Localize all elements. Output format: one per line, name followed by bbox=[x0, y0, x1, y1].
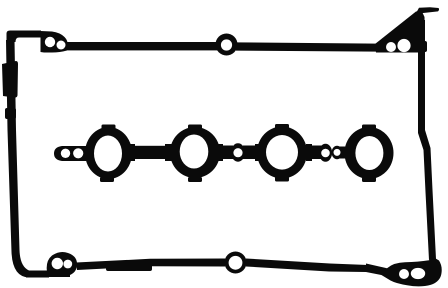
wire: bottom edge left of boss bbox=[26, 271, 49, 278]
bore: seal ring 4 bbox=[355, 136, 383, 170]
wire: bar link1-ring3 bbox=[243, 146, 261, 160]
tab: bottom edge bump bbox=[106, 262, 152, 271]
seal ring 1 bbox=[85, 127, 132, 179]
hole: bottom-right boss small bbox=[399, 269, 409, 279]
hole: wedge small bbox=[386, 42, 396, 52]
hole: bottom-left boss 1 bbox=[52, 258, 63, 269]
hole: eyelet tab left bbox=[61, 149, 70, 158]
hole: eyelet tab right bbox=[73, 148, 83, 158]
hole: top middle grommet bbox=[221, 39, 232, 50]
wire: bottom edge segment right of grommet bbox=[246, 259, 386, 276]
white holes punched on top bbox=[45, 37, 425, 279]
wire: right edge bbox=[418, 20, 436, 260]
eyelet tab left of ring 4 bbox=[332, 146, 343, 160]
hole: top-left boss A bbox=[45, 37, 55, 47]
wire: bar ring1-ring2 bbox=[126, 146, 174, 159]
wire: top edge segment C bbox=[236, 42, 378, 51]
link ring 1 bbox=[231, 143, 245, 161]
boss top-left with two bolt holes bbox=[41, 31, 68, 53]
wire: bar ring2-link1 bbox=[215, 146, 233, 160]
tab: left edge small bump bbox=[5, 108, 16, 119]
hole: link ring 2 bbox=[321, 149, 330, 158]
seal ring 3 bbox=[257, 127, 307, 179]
bore: seal ring 3 bbox=[266, 135, 298, 170]
hole: top-left boss B bbox=[57, 41, 66, 50]
boss top-right wedge bbox=[375, 11, 425, 53]
wire: top-left corner arc bbox=[7, 31, 42, 43]
wire: top edge segment B bbox=[64, 42, 218, 50]
eyelet tab left of ring 1 bbox=[54, 146, 90, 161]
node: bottom middle grommet bbox=[225, 252, 247, 274]
boss bottom-right with hole and oval slot bbox=[366, 258, 442, 287]
wire: outer gasket left edge bbox=[6, 40, 29, 278]
wire: bar eyelet-ring4 bbox=[338, 147, 348, 159]
tab: left edge blob bbox=[2, 61, 18, 98]
tab: bump right edge upper bbox=[420, 41, 427, 52]
wire: bar ring3-link2 bbox=[305, 146, 322, 160]
hole: eyelet before ring 4 bbox=[334, 149, 341, 156]
bore: seal ring 1 bbox=[94, 136, 122, 172]
hole: bottom-left boss 2 bbox=[63, 260, 72, 269]
node: top middle grommet bbox=[216, 34, 238, 56]
tab: top-right hook arm bbox=[415, 7, 439, 15]
bore: seal ring 2 bbox=[180, 135, 209, 169]
boss bottom-left with two bolt holes bbox=[47, 252, 77, 277]
seal ring 4 bbox=[345, 127, 394, 179]
hole: link ring 1 bbox=[233, 148, 242, 157]
link ring 2 bbox=[319, 144, 332, 162]
hole: wedge large bbox=[397, 39, 410, 52]
seal ring 2 bbox=[170, 127, 220, 178]
wire: bottom edge segment to grommet bbox=[76, 259, 225, 271]
hole: bottom-right boss oval bbox=[411, 268, 425, 279]
hole: bottom middle grommet bbox=[229, 256, 243, 270]
